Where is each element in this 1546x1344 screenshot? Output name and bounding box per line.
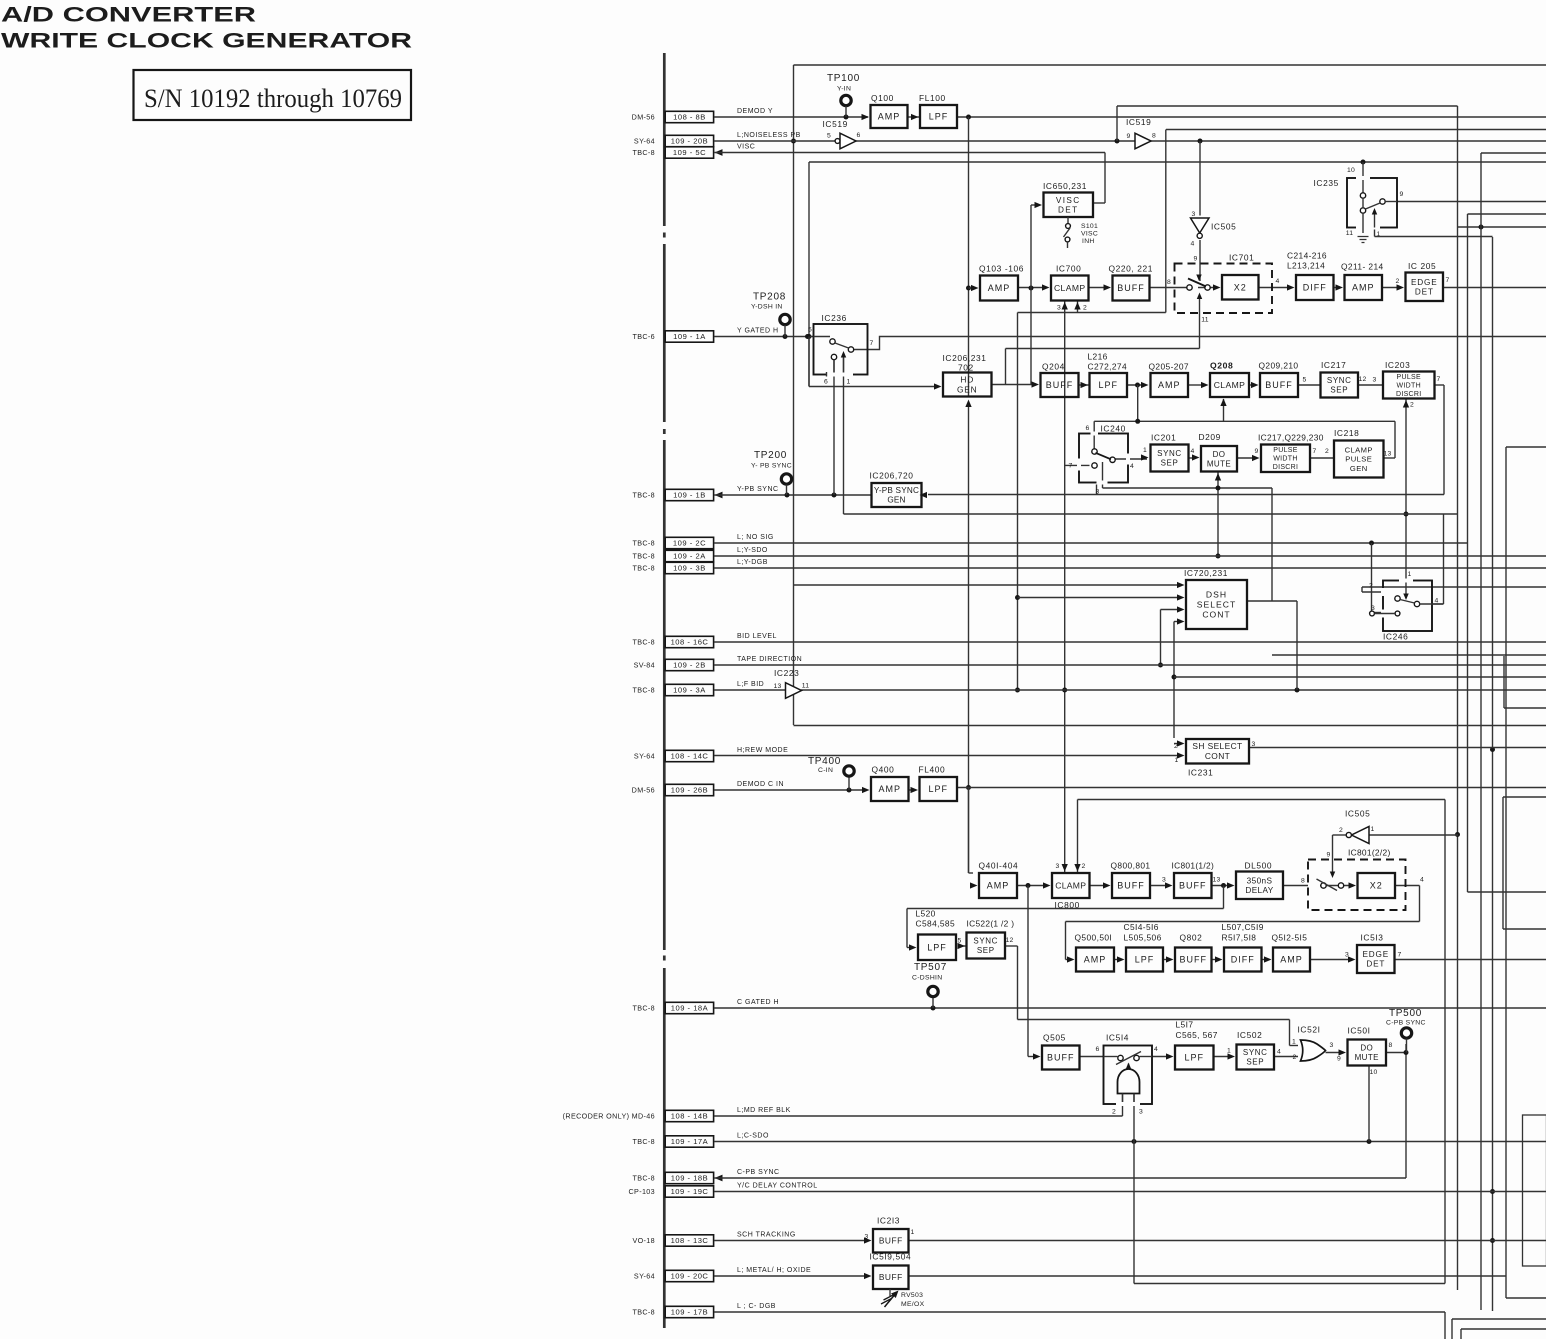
svg-text:IC 205: IC 205 <box>1408 261 1436 271</box>
svg-text:IC505: IC505 <box>1211 222 1236 232</box>
svg-text:Y-PB SYNC: Y-PB SYNC <box>874 486 919 495</box>
svg-text:L ; C- DGB: L ; C- DGB <box>737 1303 776 1310</box>
svg-text:3: 3 <box>1162 877 1166 884</box>
svg-text:SEP: SEP <box>1161 459 1179 468</box>
svg-text:FL100: FL100 <box>919 93 946 103</box>
svg-text:3: 3 <box>1192 211 1196 218</box>
svg-text:TBC-8: TBC-8 <box>632 563 655 572</box>
svg-text:109 - 17B: 109 - 17B <box>671 1308 708 1317</box>
svg-text:9: 9 <box>1337 1056 1341 1063</box>
svg-text:BUFF: BUFF <box>1180 955 1208 965</box>
svg-text:4: 4 <box>1191 241 1195 248</box>
svg-text:IC5I4: IC5I4 <box>1106 1033 1129 1043</box>
svg-text:350nS: 350nS <box>1247 876 1273 885</box>
svg-text:TBC-8: TBC-8 <box>632 637 655 646</box>
svg-text:Q204: Q204 <box>1042 362 1065 372</box>
svg-text:TBC-8: TBC-8 <box>632 490 655 499</box>
svg-text:5: 5 <box>958 938 962 945</box>
svg-text:SEP: SEP <box>977 946 995 955</box>
svg-text:11: 11 <box>1346 230 1353 237</box>
svg-text:DO: DO <box>1360 1044 1373 1053</box>
svg-text:109 - 1B: 109 - 1B <box>673 491 706 500</box>
svg-text:BUFF: BUFF <box>1179 881 1207 891</box>
svg-text:C272,274: C272,274 <box>1088 362 1128 372</box>
svg-text:LPF: LPF <box>1184 1053 1204 1063</box>
svg-text:9: 9 <box>1400 191 1404 198</box>
svg-text:MUTE: MUTE <box>1207 459 1231 468</box>
svg-text:IC246: IC246 <box>1383 632 1408 642</box>
svg-text:TBC-8: TBC-8 <box>632 538 655 547</box>
svg-text:C-IN: C-IN <box>818 767 833 774</box>
svg-text:ME/OX: ME/OX <box>901 1301 925 1308</box>
svg-text:Y GATED H: Y GATED H <box>737 328 779 335</box>
svg-text:GEN: GEN <box>1350 464 1368 473</box>
svg-text:BUFF: BUFF <box>879 1272 903 1282</box>
svg-text:Q40I-404: Q40I-404 <box>979 861 1019 871</box>
svg-text:SYNC: SYNC <box>1157 449 1182 458</box>
svg-text:9: 9 <box>1127 133 1131 140</box>
svg-text:Q400: Q400 <box>872 765 895 775</box>
svg-text:IC217: IC217 <box>1321 360 1346 370</box>
svg-text:2: 2 <box>1369 583 1373 590</box>
svg-text:IC217,Q229,230: IC217,Q229,230 <box>1258 433 1324 443</box>
svg-text:C565, 567: C565, 567 <box>1176 1030 1218 1040</box>
svg-text:EDGE: EDGE <box>1363 950 1389 959</box>
svg-text:Q5I2-5I5: Q5I2-5I5 <box>1272 933 1308 943</box>
svg-text:A/D CONVERTER: A/D CONVERTER <box>1 3 257 27</box>
svg-text:Q100: Q100 <box>871 93 894 103</box>
svg-text:Y-IN: Y-IN <box>837 86 851 93</box>
svg-text:C584,585: C584,585 <box>916 919 956 929</box>
svg-text:LPF: LPF <box>929 112 949 122</box>
svg-text:1: 1 <box>1175 757 1179 764</box>
svg-text:LPF: LPF <box>928 784 948 794</box>
svg-text:SELECT: SELECT <box>1197 600 1236 610</box>
svg-text:IC223: IC223 <box>774 668 799 678</box>
svg-text:IC700: IC700 <box>1056 264 1081 274</box>
svg-text:3: 3 <box>1057 305 1061 312</box>
svg-text:TAPE DIRECTION: TAPE DIRECTION <box>737 656 802 663</box>
svg-text:108 - 8B: 108 - 8B <box>673 113 706 122</box>
svg-text:INH: INH <box>1082 238 1095 245</box>
svg-text:7: 7 <box>870 340 874 347</box>
svg-text:108 - 14C: 108 - 14C <box>671 752 709 761</box>
svg-text:IC2I3: IC2I3 <box>877 1216 900 1226</box>
svg-text:WIDTH: WIDTH <box>1397 382 1421 389</box>
svg-text:1: 1 <box>1292 1039 1296 1046</box>
svg-text:3: 3 <box>1139 1109 1143 1116</box>
svg-text:L;Y-SDO: L;Y-SDO <box>737 547 768 554</box>
svg-text:SYNC: SYNC <box>973 937 998 946</box>
svg-text:L5I7: L5I7 <box>1176 1020 1194 1030</box>
svg-text:7: 7 <box>1313 448 1317 455</box>
svg-text:2: 2 <box>1083 305 1087 312</box>
svg-text:2: 2 <box>1339 827 1343 834</box>
svg-text:6: 6 <box>824 379 828 386</box>
svg-text:109 - 26B: 109 - 26B <box>671 786 708 795</box>
svg-text:IC231: IC231 <box>1188 768 1213 778</box>
svg-text:AMP: AMP <box>878 784 901 794</box>
svg-text:SY-64: SY-64 <box>634 136 655 145</box>
svg-text:TBC-8: TBC-8 <box>632 1307 655 1316</box>
svg-text:2: 2 <box>1174 743 1178 750</box>
svg-text:10: 10 <box>1370 1069 1378 1076</box>
svg-text:C214-216: C214-216 <box>1287 251 1327 261</box>
svg-text:C GATED H: C GATED H <box>737 999 779 1006</box>
svg-text:AMP: AMP <box>1280 955 1303 965</box>
svg-text:IC218: IC218 <box>1334 428 1359 438</box>
svg-text:BUFF: BUFF <box>1117 283 1145 293</box>
svg-text:PULSE: PULSE <box>1397 374 1421 381</box>
svg-text:VISC: VISC <box>737 144 755 151</box>
svg-text:6: 6 <box>1096 1046 1100 1053</box>
svg-text:3: 3 <box>865 1234 869 1241</box>
svg-text:DIFF: DIFF <box>1231 955 1255 965</box>
svg-text:GEN: GEN <box>887 496 905 505</box>
svg-text:109 - 2C: 109 - 2C <box>673 539 706 548</box>
svg-text:4: 4 <box>1276 278 1280 285</box>
svg-text:PULSE: PULSE <box>1273 447 1297 454</box>
svg-text:SYNC: SYNC <box>1243 1048 1268 1057</box>
svg-text:H;REW MODE: H;REW MODE <box>737 747 788 754</box>
svg-text:TP400: TP400 <box>808 756 841 767</box>
svg-text:AMP: AMP <box>1158 380 1181 390</box>
svg-text:7: 7 <box>1398 952 1402 959</box>
svg-text:8: 8 <box>1389 1042 1393 1049</box>
svg-text:IC203: IC203 <box>1385 360 1410 370</box>
svg-text:SEP: SEP <box>1330 386 1348 395</box>
svg-text:IC240: IC240 <box>1101 424 1126 434</box>
svg-text:AMP: AMP <box>988 283 1011 293</box>
svg-text:109 - 18B: 109 - 18B <box>671 1174 708 1183</box>
svg-text:TP507: TP507 <box>914 962 947 973</box>
svg-text:4: 4 <box>1154 1046 1158 1053</box>
svg-text:CONT: CONT <box>1202 610 1230 620</box>
svg-text:AMP: AMP <box>878 112 901 122</box>
svg-text:IC206,231: IC206,231 <box>943 353 987 363</box>
svg-text:109 - 20B: 109 - 20B <box>671 137 708 146</box>
svg-text:1: 1 <box>1371 826 1375 833</box>
svg-text:7: 7 <box>1446 277 1450 284</box>
svg-text:DEMOD Y: DEMOD Y <box>737 108 773 115</box>
svg-text:3: 3 <box>1345 952 1349 959</box>
svg-text:2: 2 <box>1325 448 1329 455</box>
svg-text:LPF: LPF <box>927 942 947 952</box>
svg-text:5: 5 <box>808 327 812 334</box>
svg-text:SEP: SEP <box>1246 1058 1264 1067</box>
svg-text:CLAMP: CLAMP <box>1345 446 1373 455</box>
svg-text:702: 702 <box>958 363 974 373</box>
svg-text:Q500,50I: Q500,50I <box>1075 933 1113 943</box>
svg-text:IC206,720: IC206,720 <box>870 471 914 481</box>
svg-text:BUFF: BUFF <box>1117 881 1145 891</box>
svg-text:7: 7 <box>1069 463 1073 470</box>
svg-text:L;MD REF BLK: L;MD REF BLK <box>737 1107 791 1114</box>
svg-text:S/N 10192 through 10769: S/N 10192 through 10769 <box>144 83 402 113</box>
svg-text:8: 8 <box>1301 878 1305 885</box>
svg-text:Q211- 214: Q211- 214 <box>1341 262 1384 272</box>
svg-text:109 - 17A: 109 - 17A <box>671 1137 709 1146</box>
svg-text:L;Y-DGB: L;Y-DGB <box>737 559 768 566</box>
svg-text:CP-103: CP-103 <box>629 1187 655 1196</box>
svg-text:TP208: TP208 <box>753 292 786 303</box>
svg-text:109 - 2A: 109 - 2A <box>673 552 706 561</box>
svg-text:Q505: Q505 <box>1043 1033 1066 1043</box>
svg-text:IC5I3: IC5I3 <box>1361 933 1384 943</box>
svg-text:L520: L520 <box>916 909 936 919</box>
svg-text:3: 3 <box>1373 377 1377 384</box>
svg-text:Q220, 221: Q220, 221 <box>1109 264 1154 274</box>
svg-text:DISCRI: DISCRI <box>1273 464 1299 471</box>
svg-text:SYNC: SYNC <box>1327 376 1352 385</box>
svg-text:WRITE CLOCK GENERATOR: WRITE CLOCK GENERATOR <box>1 29 413 53</box>
svg-text:109 - 19C: 109 - 19C <box>671 1187 709 1196</box>
svg-text:4: 4 <box>1191 448 1195 455</box>
svg-text:VISC: VISC <box>1056 196 1081 205</box>
svg-text:C-PB SYNC: C-PB SYNC <box>1386 1020 1426 1027</box>
svg-text:109 - 2B: 109 - 2B <box>673 661 706 670</box>
svg-text:CONT: CONT <box>1205 751 1230 761</box>
svg-text:L507,C5I9: L507,C5I9 <box>1222 922 1264 932</box>
svg-text:Q205-207: Q205-207 <box>1149 362 1189 372</box>
svg-text:IC201: IC201 <box>1151 433 1176 443</box>
svg-text:2: 2 <box>1293 1054 1297 1061</box>
svg-text:C-PB SYNC: C-PB SYNC <box>737 1169 780 1176</box>
svg-text:X2: X2 <box>1234 282 1247 292</box>
svg-text:DIFF: DIFF <box>1303 283 1327 293</box>
svg-text:TP100: TP100 <box>827 73 860 84</box>
svg-text:HD: HD <box>960 374 974 384</box>
svg-text:IC519: IC519 <box>823 119 848 129</box>
svg-text:IC235: IC235 <box>1314 178 1339 188</box>
svg-text:BID LEVEL: BID LEVEL <box>737 633 777 640</box>
svg-text:Q103 -106: Q103 -106 <box>979 264 1024 274</box>
svg-text:SCH TRACKING: SCH TRACKING <box>737 1232 796 1239</box>
svg-text:DISCRI: DISCRI <box>1396 391 1422 398</box>
svg-text:IC701: IC701 <box>1229 253 1254 263</box>
svg-text:C5I4-5I6: C5I4-5I6 <box>1124 922 1159 932</box>
svg-text:13: 13 <box>1384 451 1392 458</box>
svg-text:CLAMP: CLAMP <box>1054 283 1086 293</box>
svg-text:IC801(1/2): IC801(1/2) <box>1172 861 1215 871</box>
svg-text:3: 3 <box>1252 741 1256 748</box>
svg-text:IC801(2/2): IC801(2/2) <box>1348 848 1391 858</box>
svg-text:109 - 1A: 109 - 1A <box>673 332 706 341</box>
svg-text:4: 4 <box>1130 463 1134 470</box>
svg-text:TP500: TP500 <box>1389 1008 1422 1019</box>
svg-text:2: 2 <box>1396 278 1400 285</box>
svg-text:13: 13 <box>774 683 782 690</box>
svg-text:L216: L216 <box>1088 352 1108 362</box>
svg-text:9: 9 <box>1255 448 1259 455</box>
svg-text:IC800: IC800 <box>1055 900 1080 910</box>
svg-text:IC519: IC519 <box>1126 117 1151 127</box>
svg-text:IC720,231: IC720,231 <box>1184 568 1228 578</box>
svg-text:IC502: IC502 <box>1237 1030 1262 1040</box>
svg-text:1: 1 <box>1143 447 1147 454</box>
svg-text:DET: DET <box>1366 960 1385 969</box>
svg-text:10: 10 <box>1347 167 1355 174</box>
svg-text:109 - 3B: 109 - 3B <box>673 564 706 573</box>
svg-text:SH SELECT: SH SELECT <box>1192 741 1242 751</box>
svg-text:1: 1 <box>847 379 851 386</box>
svg-text:L505,506: L505,506 <box>1124 933 1162 943</box>
svg-text:TP200: TP200 <box>754 450 787 461</box>
svg-text:S101: S101 <box>1081 223 1098 230</box>
svg-text:IC236: IC236 <box>822 313 847 323</box>
svg-text:11: 11 <box>802 683 809 690</box>
svg-text:DET: DET <box>1415 287 1434 296</box>
svg-text:4: 4 <box>1420 877 1424 884</box>
svg-text:TBC-8: TBC-8 <box>632 551 655 560</box>
svg-text:TBC-6: TBC-6 <box>632 332 655 341</box>
svg-text:DM-56: DM-56 <box>632 785 655 794</box>
svg-text:8: 8 <box>1152 133 1156 140</box>
svg-text:2: 2 <box>1410 402 1414 409</box>
svg-text:BUFF: BUFF <box>1265 380 1293 390</box>
svg-text:12: 12 <box>1359 376 1367 383</box>
svg-text:X2: X2 <box>1370 881 1383 891</box>
svg-text:Y/C DELAY CONTROL: Y/C DELAY CONTROL <box>737 1183 818 1190</box>
svg-text:MUTE: MUTE <box>1355 1053 1379 1062</box>
svg-text:VO-18: VO-18 <box>632 1236 655 1245</box>
svg-text:7: 7 <box>1437 376 1441 383</box>
svg-text:GEN: GEN <box>957 384 978 394</box>
svg-text:RV503: RV503 <box>901 1292 923 1299</box>
svg-text:Y- PB SYNC: Y- PB SYNC <box>751 463 792 470</box>
svg-text:TBC-8: TBC-8 <box>632 685 655 694</box>
svg-text:5: 5 <box>827 133 831 140</box>
svg-text:TBC-8: TBC-8 <box>632 1173 655 1182</box>
svg-text:109 - 5C: 109 - 5C <box>673 148 706 157</box>
svg-text:AMP: AMP <box>1352 283 1375 293</box>
svg-text:1: 1 <box>1377 231 1381 238</box>
svg-text:DL500: DL500 <box>1245 861 1273 871</box>
svg-text:WIDTH: WIDTH <box>1273 456 1297 463</box>
svg-text:IC650,231: IC650,231 <box>1043 181 1087 191</box>
svg-text:L;C-SDO: L;C-SDO <box>737 1133 769 1140</box>
svg-text:IC50I: IC50I <box>1348 1026 1371 1036</box>
svg-text:1: 1 <box>911 1229 915 1236</box>
svg-text:DO: DO <box>1213 450 1226 459</box>
svg-text:3: 3 <box>1330 1042 1334 1049</box>
svg-text:4: 4 <box>1277 1049 1281 1056</box>
svg-text:PULSE: PULSE <box>1345 455 1372 464</box>
svg-text:Q209,210: Q209,210 <box>1259 361 1299 371</box>
svg-text:SY-64: SY-64 <box>634 1271 655 1280</box>
svg-text:5: 5 <box>1303 377 1307 384</box>
svg-text:13: 13 <box>1213 877 1221 884</box>
svg-text:D209: D209 <box>1199 432 1221 442</box>
svg-text:C-DSHIN: C-DSHIN <box>912 975 942 982</box>
svg-text:BUFF: BUFF <box>879 1236 903 1246</box>
svg-text:L; NO SIG: L; NO SIG <box>737 534 774 541</box>
svg-text:IC5I9,504: IC5I9,504 <box>870 1252 912 1262</box>
svg-text:DSH: DSH <box>1206 589 1227 599</box>
svg-text:R5I7,5I8: R5I7,5I8 <box>1222 933 1257 943</box>
svg-text:VISC: VISC <box>1081 231 1098 238</box>
svg-text:9: 9 <box>1194 256 1198 263</box>
svg-text:DET: DET <box>1058 205 1079 214</box>
svg-text:3: 3 <box>1096 489 1100 496</box>
svg-text:AMP: AMP <box>987 881 1010 891</box>
svg-text:TBC-8: TBC-8 <box>632 1137 655 1146</box>
svg-text:L; METAL/ H; OXIDE: L; METAL/ H; OXIDE <box>737 1267 811 1274</box>
svg-text:DEMOD C IN: DEMOD C IN <box>737 781 784 788</box>
svg-text:108 - 14B: 108 - 14B <box>671 1112 708 1121</box>
svg-text:L;F BID: L;F BID <box>737 681 764 688</box>
svg-text:DELAY: DELAY <box>1245 886 1273 895</box>
svg-text:6: 6 <box>1086 425 1090 432</box>
svg-text:IC522(1 /2 ): IC522(1 /2 ) <box>967 919 1015 929</box>
svg-text:L;NOISELESS PB: L;NOISELESS PB <box>737 132 801 139</box>
svg-text:Q208: Q208 <box>1210 361 1233 371</box>
svg-text:Q800,801: Q800,801 <box>1111 861 1151 871</box>
svg-text:AMP: AMP <box>1084 955 1107 965</box>
svg-text:9: 9 <box>1327 852 1331 859</box>
svg-text:BUFF: BUFF <box>1046 380 1074 390</box>
svg-text:EDGE: EDGE <box>1411 278 1437 287</box>
svg-text:Y-DSH IN: Y-DSH IN <box>751 304 783 311</box>
svg-text:DM-56: DM-56 <box>632 112 655 121</box>
svg-text:SV-84: SV-84 <box>634 660 655 669</box>
svg-text:1: 1 <box>1408 571 1412 578</box>
svg-text:109 - 18A: 109 - 18A <box>671 1004 709 1013</box>
svg-text:108 - 13C: 108 - 13C <box>671 1236 709 1245</box>
svg-text:Q802: Q802 <box>1180 933 1203 943</box>
svg-text:2: 2 <box>1082 863 1086 870</box>
svg-text:IC52I: IC52I <box>1298 1025 1321 1035</box>
svg-text:(RECODER ONLY) MD-46: (RECODER ONLY) MD-46 <box>563 1111 655 1120</box>
svg-text:L213,214: L213,214 <box>1287 261 1325 271</box>
svg-text:FL400: FL400 <box>919 765 946 775</box>
svg-text:109 - 20C: 109 - 20C <box>671 1272 709 1281</box>
svg-text:TBC-8: TBC-8 <box>632 148 655 157</box>
svg-text:12: 12 <box>1006 937 1014 944</box>
svg-text:BUFF: BUFF <box>1047 1053 1075 1063</box>
svg-text:LPF: LPF <box>1135 955 1155 965</box>
svg-text:6: 6 <box>857 132 861 139</box>
svg-text:108 - 16C: 108 - 16C <box>671 638 709 647</box>
svg-text:3: 3 <box>1056 863 1060 870</box>
svg-text:1: 1 <box>1227 1048 1231 1055</box>
svg-text:CLAMP: CLAMP <box>1214 380 1246 390</box>
svg-text:SY-64: SY-64 <box>634 751 655 760</box>
svg-text:IC505: IC505 <box>1345 809 1370 819</box>
svg-text:8: 8 <box>1167 279 1171 286</box>
svg-text:109 - 3A: 109 - 3A <box>673 686 706 695</box>
svg-text:Y-PB SYNC: Y-PB SYNC <box>737 486 779 493</box>
svg-text:CLAMP: CLAMP <box>1055 881 1086 891</box>
svg-text:11: 11 <box>1201 317 1208 324</box>
svg-text:TBC-8: TBC-8 <box>632 1003 655 1012</box>
svg-text:2: 2 <box>1112 1109 1116 1116</box>
svg-text:LPF: LPF <box>1098 380 1118 390</box>
